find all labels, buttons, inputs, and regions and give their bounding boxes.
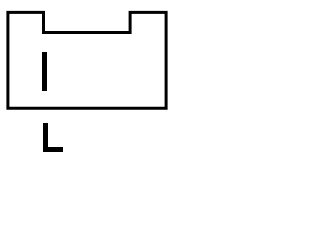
terminal bar I (inside body) [42,52,47,91]
label L (below body) [43,123,63,152]
component body outline (notched rectangle) [8,12,166,108]
